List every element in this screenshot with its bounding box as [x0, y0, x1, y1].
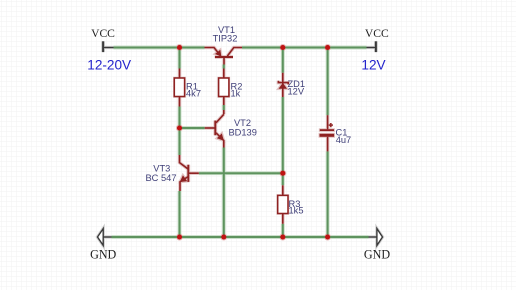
svg-text:4u7: 4u7 [336, 135, 352, 145]
svg-text:1k5: 1k5 [289, 205, 304, 215]
svg-text:BD139: BD139 [228, 128, 256, 138]
svg-text:GND: GND [364, 248, 390, 262]
svg-text:12V: 12V [361, 58, 385, 73]
svg-text:4k7: 4k7 [186, 88, 201, 98]
svg-text:1k: 1k [231, 88, 241, 98]
svg-text:BC 547: BC 547 [145, 173, 176, 183]
svg-text:TIP32: TIP32 [213, 33, 238, 43]
svg-text:12-20V: 12-20V [87, 58, 131, 73]
svg-text:VT2: VT2 [234, 118, 251, 128]
svg-text:GND: GND [90, 248, 116, 262]
svg-text:VCC: VCC [91, 27, 115, 40]
svg-text:VCC: VCC [365, 27, 389, 40]
svg-text:12V: 12V [288, 87, 305, 97]
